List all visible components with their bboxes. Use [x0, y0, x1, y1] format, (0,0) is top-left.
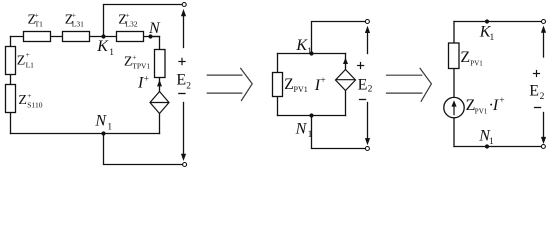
svg-text:E: E: [358, 77, 368, 94]
node N1 dot right: [485, 144, 489, 148]
plus sign port left: [178, 58, 185, 65]
label N1 right: [478, 127, 494, 147]
current arrow above diamond left circuit: [157, 80, 162, 87]
svg-text:+: +: [132, 53, 136, 62]
plus sign port right: [533, 70, 540, 77]
wire N1 to bottom port middle: [312, 116, 366, 149]
terminal bottom middle: [365, 147, 369, 151]
node K1 dot middle: [309, 51, 313, 55]
resistor Z_PV1 right: [449, 43, 460, 69]
svg-text:Z: Z: [284, 76, 293, 93]
wire top rail right circuit: [454, 21, 541, 23]
label I+ middle: [314, 76, 326, 94]
wire top rail left circuit: [11, 36, 160, 38]
node K1 dot right: [485, 19, 489, 23]
wire bottom inner rail middle: [278, 115, 346, 117]
svg-text:+: +: [26, 50, 30, 59]
svg-text:PV1: PV1: [294, 85, 308, 94]
label N1 middle: [295, 120, 313, 140]
label Z+_L32: [118, 11, 137, 29]
svg-text:S110: S110: [27, 100, 42, 109]
wire diamond branch middle: [345, 54, 347, 70]
terminal top right: [542, 20, 546, 24]
label Z_PV1 right top: [460, 49, 483, 67]
label E2 left: [176, 71, 191, 91]
resistor Z_L32: [117, 32, 144, 42]
wire port arrow down right: [543, 113, 545, 141]
label E2 middle: [358, 77, 373, 95]
svg-text:L31: L31: [72, 19, 84, 28]
node K1 dot: [101, 34, 105, 38]
svg-text:L1: L1: [26, 60, 35, 69]
svg-text:1: 1: [308, 130, 313, 140]
wire port arrow up right: [543, 30, 545, 58]
label E2 right: [529, 83, 544, 103]
svg-text:L32: L32: [125, 19, 137, 28]
label Z+_S110: [18, 91, 42, 109]
label Z+_TPV1: [124, 53, 151, 71]
wire port arrow up left circuit: [183, 13, 185, 48]
label Z+_T1: [28, 11, 44, 29]
svg-text:2: 2: [540, 92, 545, 102]
right circuit: [454, 22, 544, 147]
arrowhead up port right: [541, 26, 546, 33]
voltage source circle right: [444, 97, 464, 117]
svg-text:1: 1: [490, 33, 495, 43]
arrowhead up port left circuit: [181, 9, 186, 16]
resistor Z_PV1 middle: [273, 73, 283, 97]
implication arrow 1: [207, 68, 253, 101]
minus sign port right: [534, 107, 541, 109]
middle circuit: [278, 22, 368, 149]
svg-text:N: N: [94, 113, 107, 130]
svg-text:2: 2: [186, 81, 191, 91]
node N1 dot middle: [309, 113, 313, 117]
svg-text:+: +: [499, 96, 504, 106]
label K1 middle: [295, 37, 312, 57]
arrowhead down port middle: [365, 138, 370, 145]
arrowhead up port middle: [365, 26, 370, 33]
label N1 left: [94, 113, 112, 133]
svg-text:N: N: [295, 120, 308, 137]
label Z_PV1 middle: [284, 76, 307, 94]
label Z_PV1 * I+ right: [466, 96, 505, 115]
arrowhead down port right: [541, 137, 546, 144]
label Z+_L31: [65, 11, 84, 29]
wire bottom rail right circuit: [454, 146, 541, 148]
wire left branch middle: [277, 54, 279, 73]
svg-text:Z: Z: [18, 93, 27, 108]
wire left branch left circuit: [10, 37, 12, 134]
svg-text:+: +: [320, 76, 325, 86]
resistor Z_L1: [6, 47, 16, 75]
dependent source diamond left circuit: [150, 92, 169, 114]
svg-text:1: 1: [109, 48, 114, 58]
wire N1 drop to bottom port: [104, 134, 183, 165]
svg-text:PV1: PV1: [475, 107, 488, 115]
wire N to TPV1 branch: [151, 37, 160, 50]
minus sign port left: [178, 93, 185, 95]
svg-text:E: E: [176, 71, 186, 88]
terminal bottom right: [541, 145, 545, 149]
plus sign port middle: [357, 62, 364, 69]
terminal bottom left circuit: [183, 163, 187, 167]
wire top inner rail middle: [278, 53, 346, 55]
svg-text:PV1: PV1: [470, 59, 483, 67]
minus sign port middle: [359, 99, 366, 101]
terminal top middle: [365, 20, 369, 24]
svg-text:1: 1: [489, 137, 494, 147]
implication arrow 2: [386, 68, 432, 102]
resistor Z_S110: [6, 85, 16, 113]
svg-text:2: 2: [368, 85, 373, 95]
wire K1 to top port middle: [312, 22, 366, 54]
source arrow inside circle: [451, 100, 456, 115]
svg-text:K: K: [96, 38, 109, 55]
svg-text:1: 1: [107, 122, 112, 132]
node N1 dot: [101, 131, 105, 135]
resistor Z_TPV1: [155, 50, 166, 78]
svg-text:E: E: [529, 83, 539, 100]
arrowhead down port left circuit: [181, 154, 186, 161]
wire K1 riser to top port: [104, 5, 183, 37]
svg-text:1: 1: [307, 47, 312, 57]
svg-text:TPV1: TPV1: [132, 62, 150, 71]
wire left branch right circuit: [453, 22, 455, 44]
svg-text:N: N: [148, 20, 161, 37]
current arrow above diamond middle: [343, 58, 348, 65]
svg-text:+: +: [27, 91, 31, 100]
label I+ left: [137, 74, 149, 91]
node N dot: [148, 34, 152, 38]
dependent source diamond middle: [336, 70, 356, 91]
resistor Z_T1: [24, 32, 51, 42]
svg-text:I: I: [492, 97, 499, 114]
svg-text:T1: T1: [35, 19, 44, 28]
svg-text:Z: Z: [460, 49, 470, 66]
wire TPV1 box to diamond: [159, 78, 161, 92]
wire port arrow down middle: [367, 103, 369, 142]
wire port arrow down left circuit: [183, 103, 185, 158]
svg-text:Z: Z: [17, 53, 26, 68]
wire bottom rail left circuit: [11, 133, 160, 135]
label K1 right: [479, 24, 495, 44]
svg-text:+: +: [144, 74, 149, 84]
resistor Z_L31: [63, 32, 90, 42]
terminal top left circuit: [182, 3, 186, 7]
label K1 left: [96, 38, 114, 58]
wire port arrow up middle: [367, 30, 369, 54]
svg-text:Z: Z: [124, 55, 133, 70]
wire diamond to bottom rail: [159, 114, 161, 134]
label Z+_L1: [17, 50, 34, 69]
